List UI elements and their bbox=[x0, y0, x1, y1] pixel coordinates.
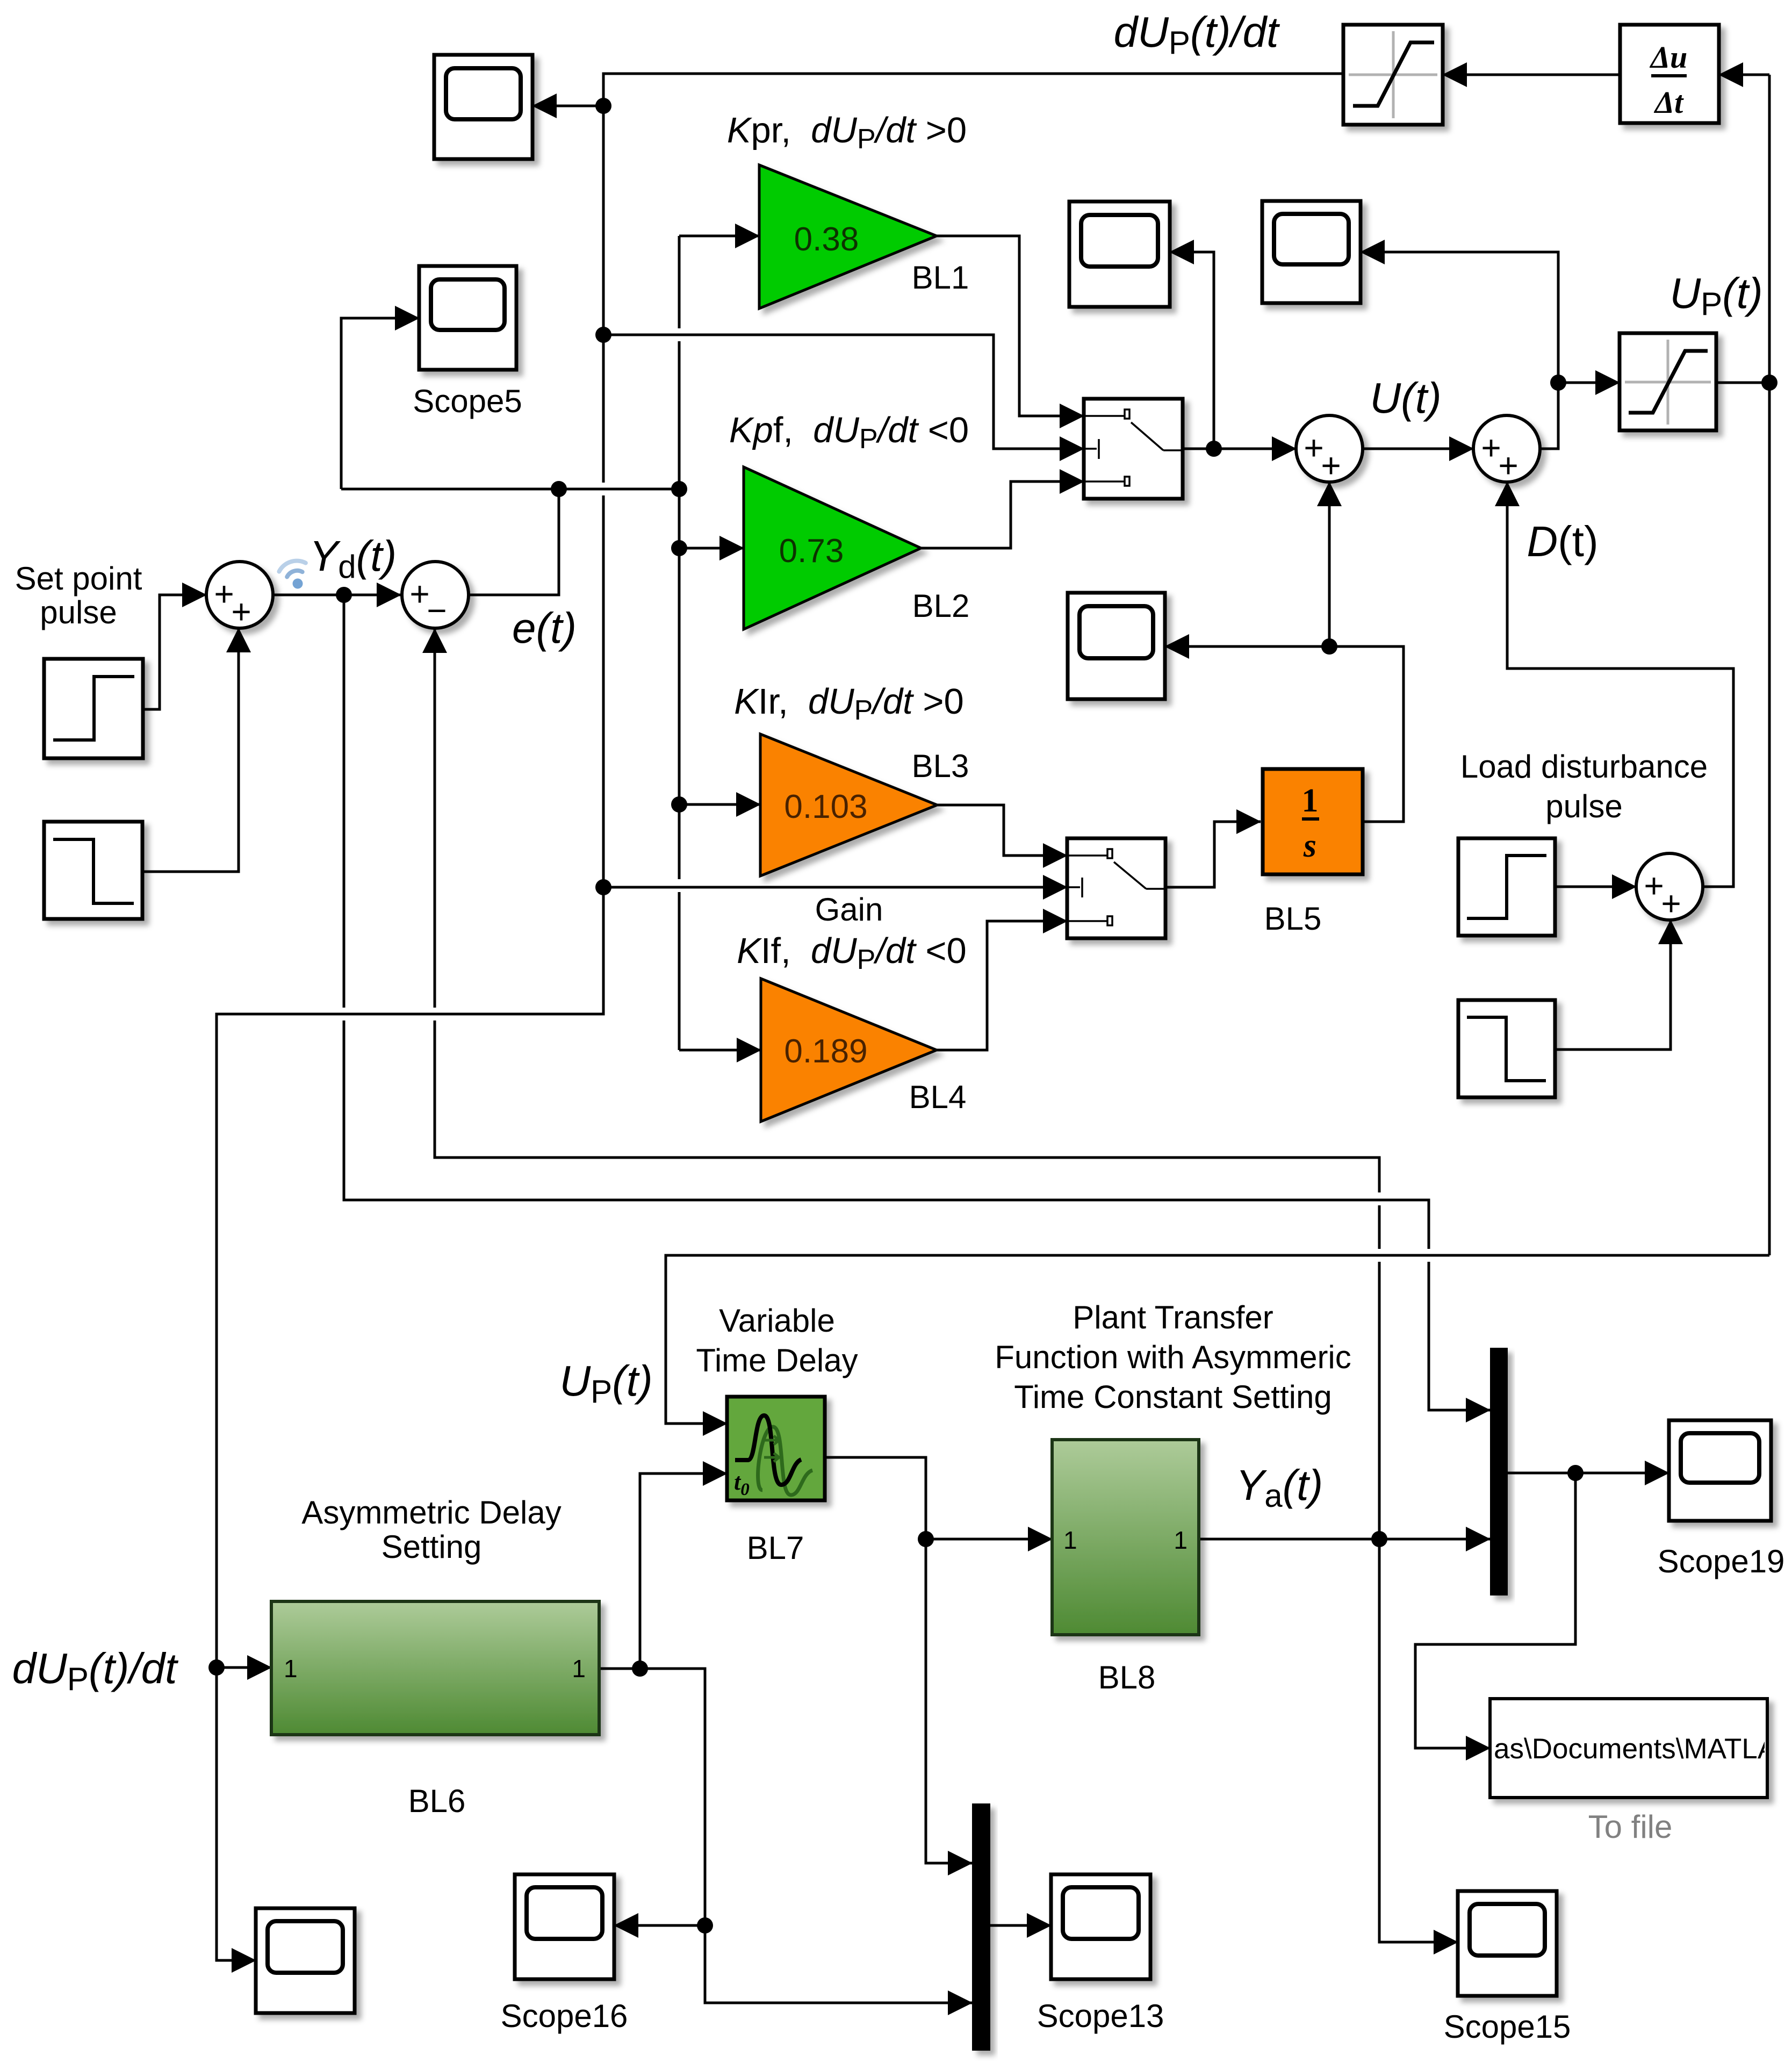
svg-text:+: + bbox=[231, 592, 251, 631]
svg-text:Scope19: Scope19 bbox=[1658, 1543, 1785, 1579]
scope C (left of BL5 loop, unlabeled) bbox=[1068, 593, 1165, 699]
wire Ya branch down to Scope15 bbox=[1379, 1539, 1458, 1942]
svg-text:BL7: BL7 bbox=[747, 1530, 804, 1566]
derivative block Du/Dt bbox=[1620, 25, 1719, 123]
svg-text:Scope16: Scope16 bbox=[501, 1998, 628, 2034]
svg-text:+: + bbox=[1498, 446, 1518, 485]
wire e(t) to BL1 bbox=[679, 235, 759, 238]
step source step4 (load disturbance down) bbox=[1458, 1000, 1555, 1097]
wire UP(t) vertical right rail bbox=[1768, 75, 1771, 1255]
svg-text:BL4: BL4 bbox=[909, 1079, 967, 1115]
node e(t) rail junction bbox=[671, 481, 687, 497]
wire sum4 out to saturation2 bbox=[1540, 383, 1620, 449]
svg-text:Δt: Δt bbox=[1654, 85, 1684, 120]
wire rail bottom to BL7 in1 bbox=[666, 1255, 1769, 1424]
switch SW2 bbox=[1067, 838, 1165, 938]
svg-text:Time Constant Setting: Time Constant Setting bbox=[1014, 1379, 1332, 1415]
svg-text:1: 1 bbox=[572, 1655, 586, 1683]
mux MUX2 bbox=[972, 1803, 990, 2051]
wire mux1 out to Scope19 bbox=[1508, 1472, 1669, 1475]
mux MUX1 bbox=[1490, 1348, 1508, 1595]
to-file block bbox=[1490, 1699, 1792, 1798]
node BL6 out junction bbox=[632, 1661, 648, 1677]
wire BL5 out loop to scope4 bbox=[1165, 646, 1404, 822]
wire switch1 out to sum3 bbox=[1182, 448, 1296, 450]
wire derivative out to saturation1 bbox=[1443, 74, 1620, 76]
svg-text:dUP(t)/dt: dUP(t)/dt bbox=[12, 1644, 179, 1697]
wire BL6 branch right and down bbox=[640, 1669, 972, 2003]
wire branch dUP/dt to BL6 input bbox=[217, 1666, 271, 1669]
svg-text:0.38: 0.38 bbox=[794, 221, 859, 258]
svg-text:1: 1 bbox=[1063, 1526, 1077, 1554]
subsystem BL8 (Plant Transfer Function) bbox=[1052, 1440, 1199, 1635]
wire step2 to sum1 bottom bbox=[142, 628, 239, 872]
svg-text:Set point: Set point bbox=[15, 560, 142, 596]
svg-text:Function with Asymmeric: Function with Asymmeric bbox=[995, 1339, 1351, 1375]
wire saturation2 out UP(t) bbox=[1716, 382, 1769, 384]
subsystem BL6 (Asymmetric Delay Setting) bbox=[271, 1601, 599, 1735]
scope Scope16 bbox=[515, 1874, 614, 1979]
svg-text:U(t): U(t) bbox=[1370, 374, 1441, 422]
svg-text:BL1: BL1 bbox=[912, 260, 969, 296]
wire BL2 out to switch1 in3 bbox=[921, 481, 1084, 548]
wire BL1 out to switch1 in1 bbox=[937, 236, 1084, 416]
svg-text:s: s bbox=[1303, 828, 1316, 864]
node e(t) junction bbox=[551, 481, 567, 497]
wire e(t) to BL4 bbox=[679, 1049, 761, 1052]
wire branch dUP/dt (Gain) to switch2 control bbox=[603, 886, 1067, 889]
node BL5 loop junction bbox=[1321, 638, 1337, 655]
svg-text:Asymmetric Delay: Asymmetric Delay bbox=[301, 1494, 561, 1530]
wire BL6 out bbox=[599, 1667, 640, 1670]
node BL3 input junction bbox=[671, 796, 687, 813]
node switch1 out junction bbox=[1206, 441, 1222, 457]
svg-text:Scope5: Scope5 bbox=[413, 383, 522, 419]
sum S2 (error subtractor) bbox=[402, 562, 469, 630]
wire step4 to sum5 bottom bbox=[1555, 920, 1671, 1050]
step source step3 (load disturbance up) bbox=[1458, 838, 1555, 936]
sum S4 (U+D adder) bbox=[1473, 415, 1540, 485]
wire e(t) vertical to gains bbox=[678, 236, 681, 328]
wire step3 to sum5 bbox=[1555, 886, 1636, 888]
gain BL3 bbox=[760, 734, 937, 876]
svg-text:0.73: 0.73 bbox=[779, 533, 844, 570]
wire step1 to sum1 bbox=[143, 595, 206, 709]
step source step2 (set point down) bbox=[44, 822, 142, 919]
node BL2 input junction bbox=[671, 540, 687, 556]
node dUP/dt-switch1 junction bbox=[595, 327, 611, 343]
node dUP/dt-gain junction bbox=[595, 879, 611, 895]
svg-text:1: 1 bbox=[284, 1655, 298, 1683]
wire switch1 out branch up to scopeA bbox=[1170, 252, 1214, 449]
wire Ya feedback up to sum2 bottom bbox=[1378, 1262, 1381, 1539]
wire mux2 out to Scope13 bbox=[990, 1924, 1051, 1927]
wire switch2 out to BL5 bbox=[1165, 822, 1261, 887]
integrator BL5 bbox=[1263, 769, 1363, 874]
svg-text:dUP(t)/dt: dUP(t)/dt bbox=[1114, 8, 1280, 61]
svg-text:e(t): e(t) bbox=[512, 604, 577, 652]
wire BL5 loop branch up to sum3 bottom bbox=[1328, 482, 1331, 646]
wire mux1 branch to To-file bbox=[1415, 1473, 1575, 1748]
node BL7 out junction bbox=[918, 1531, 934, 1547]
scope Scope19 bbox=[1669, 1420, 1771, 1521]
svg-text:as\Documents\MATLAB: as\Documents\MATLAB bbox=[1494, 1733, 1792, 1765]
svg-text:+: + bbox=[1321, 446, 1341, 485]
svg-text:1: 1 bbox=[1302, 782, 1319, 819]
wire sum5 out D(t) to sum4 bottom bbox=[1507, 482, 1733, 887]
wire branch dUP/dt to Scope1 bbox=[532, 105, 603, 107]
svg-text:KIf, dUP/dt <0: KIf, dUP/dt <0 bbox=[737, 931, 967, 975]
sum S1 (set point adder) bbox=[206, 562, 273, 631]
svg-text:Scope15: Scope15 bbox=[1444, 2009, 1571, 2045]
node Yd junction bbox=[336, 587, 352, 603]
wire e(t) horizontal distribution bbox=[341, 488, 679, 491]
svg-text:Time Delay: Time Delay bbox=[696, 1342, 858, 1378]
wire sum3 to sum4 U(t) bbox=[1363, 448, 1473, 450]
node mux1 out junction bbox=[1567, 1465, 1584, 1481]
node dUP/dt-BL6 junction bbox=[208, 1659, 225, 1676]
wire BL7 branch down to mux2 in1 bbox=[926, 1539, 972, 1863]
scope Scope15 bbox=[1458, 1891, 1557, 1996]
wire sum2 out e(t) bbox=[469, 489, 559, 595]
scope Scope5 bbox=[419, 266, 516, 370]
svg-text:Gain: Gain bbox=[815, 892, 883, 928]
svg-text:BL6: BL6 bbox=[408, 1783, 466, 1819]
wire branch dUP/dt to switch1 control bbox=[603, 335, 1084, 449]
svg-text:BL5: BL5 bbox=[1264, 901, 1322, 937]
svg-text:KIr, dUP/dt >0: KIr, dUP/dt >0 bbox=[734, 681, 964, 726]
saturation SAT1 bbox=[1343, 25, 1443, 125]
svg-text:BL8: BL8 bbox=[1098, 1659, 1156, 1695]
svg-text:BL3: BL3 bbox=[912, 748, 969, 784]
sum S3 (P+I adder) bbox=[1296, 415, 1363, 485]
node dUP/dt-scope1 junction bbox=[595, 98, 611, 114]
svg-text:0.103: 0.103 bbox=[784, 788, 867, 825]
svg-text:Kpr, dUP/dt >0: Kpr, dUP/dt >0 bbox=[727, 110, 967, 155]
wire Yd feedback down bbox=[343, 595, 346, 1008]
wire e(t) to BL3 bbox=[679, 803, 760, 806]
node Ya junction bbox=[1371, 1531, 1387, 1547]
wire BL4 out to switch2 in3 bbox=[937, 921, 1067, 1050]
wire BL7 out to BL8 bbox=[825, 1457, 1052, 1539]
node Scope16 junction bbox=[697, 1917, 713, 1934]
wire e(t) to BL2 bbox=[679, 547, 744, 550]
scope Scope13 bbox=[1051, 1874, 1150, 1979]
svg-text:1: 1 bbox=[1174, 1526, 1188, 1554]
gain BL1 bbox=[759, 165, 937, 308]
wire BL8 out Ya(t) to mux1 in2 bbox=[1199, 1538, 1490, 1541]
logged-signal wifi badge on Yd(t) bbox=[277, 557, 313, 593]
scope A (above switch1, unlabeled) bbox=[1069, 202, 1170, 307]
node sum4-sat2 junction bbox=[1550, 375, 1566, 391]
svg-text:BL2: BL2 bbox=[912, 588, 970, 624]
wire e(t) to Scope5 bbox=[341, 318, 419, 489]
wire BL6 branch up to BL7 in2 bbox=[640, 1474, 727, 1669]
scope Scope1 (top left, unlabeled) bbox=[434, 55, 532, 159]
wire rail top to derivative block bbox=[1719, 74, 1769, 76]
gain BL2 bbox=[744, 467, 921, 629]
svg-text:pulse: pulse bbox=[40, 594, 117, 630]
switch SW1 bbox=[1084, 399, 1183, 499]
svg-text:Setting: Setting bbox=[382, 1529, 482, 1565]
wire BL3 out to switch2 in1 bbox=[937, 805, 1067, 856]
scope D (bottom left, unlabeled) bbox=[256, 1908, 355, 2013]
svg-text:+: + bbox=[1661, 884, 1681, 923]
gain BL4 bbox=[761, 979, 937, 1122]
svg-text:pulse: pulse bbox=[1545, 788, 1622, 824]
saturation SAT2 bbox=[1620, 333, 1716, 430]
node UP(t) rail junction bbox=[1761, 375, 1777, 391]
wire branch to Scope16 bbox=[614, 1924, 705, 1927]
svg-text:−: − bbox=[427, 591, 447, 630]
svg-text:Load disturbance: Load disturbance bbox=[1460, 749, 1708, 785]
svg-text:To file: To file bbox=[1588, 1809, 1673, 1845]
scope B (top middle-right, unlabeled) bbox=[1262, 201, 1361, 303]
svg-text:Plant Transfer: Plant Transfer bbox=[1073, 1299, 1273, 1335]
svg-text:Kpf, dUP/dt <0: Kpf, dUP/dt <0 bbox=[729, 410, 969, 455]
svg-text:Variable: Variable bbox=[719, 1303, 835, 1339]
svg-text:Δu: Δu bbox=[1650, 40, 1688, 75]
svg-text:Scope13: Scope13 bbox=[1037, 1998, 1164, 2034]
variable transport delay BL7 bbox=[727, 1397, 825, 1500]
step source step1 (set point up) bbox=[44, 659, 143, 758]
wire sum4 branch up to scopeB bbox=[1361, 252, 1558, 383]
svg-text:0.189: 0.189 bbox=[784, 1033, 867, 1070]
wire sum1 to sum2 Yd(t) bbox=[273, 594, 401, 596]
sum S5 (load disturbance adder) bbox=[1636, 853, 1703, 923]
svg-text:D(t): D(t) bbox=[1527, 517, 1598, 565]
wire dUP(t)/dt main: saturation out, left then down to BL6 and bottom scope bbox=[603, 74, 1343, 483]
